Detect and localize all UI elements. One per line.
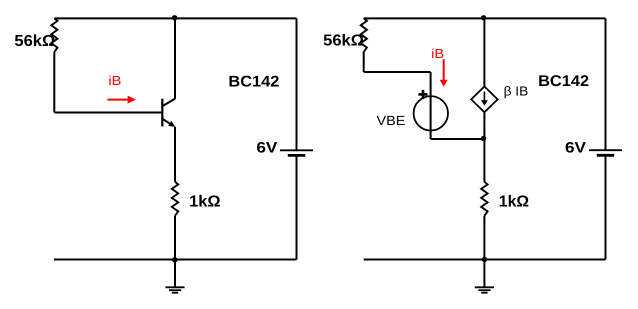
node: collector/top-rail junction dot: [172, 15, 177, 20]
wire: left vertical below R3: [363, 52, 365, 72]
svg-text:56kΩ: 56kΩ: [323, 33, 364, 50]
wire: current source to R4: [483, 112, 485, 182]
resistor R3 56k (zigzag): [361, 18, 367, 52]
resistor R2 1k (zigzag): [172, 182, 178, 216]
battery V1 6V: [280, 150, 313, 155]
wire: right rail lower (battery to bottom rail): [296, 155, 298, 259]
wire: top rail left circuit: [54, 17, 296, 19]
svg-text:BC142: BC142: [538, 73, 589, 90]
wire: base wire: [54, 112, 161, 114]
svg-text:VBE: VBE: [377, 113, 406, 128]
wire: horizontal to VBE source: [364, 71, 431, 73]
wire: right rail upper (to battery): [296, 18, 298, 150]
svg-text:1kΩ: 1kΩ: [499, 194, 529, 211]
arrow inside current source: [481, 92, 488, 106]
node: bottom rail junction dot (right circuit): [482, 257, 487, 262]
svg-text:1kΩ: 1kΩ: [189, 194, 221, 211]
svg-text:56kΩ: 56kΩ: [14, 33, 55, 50]
battery V2 6V: [589, 150, 622, 155]
wire: emitter down to R2: [174, 127, 176, 182]
svg-text:iB: iB: [108, 73, 121, 88]
transistor Q1 emitter diagonal with arrow: [162, 119, 171, 125]
ground GND1: [165, 260, 184, 293]
ground GND2: [475, 260, 494, 293]
transistor Q1 collector diagonal: [162, 99, 175, 106]
node: emitter/bottom-rail junction dot: [172, 257, 177, 262]
svg-text:β IB: β IB: [504, 84, 529, 99]
transistor Q1 base bar: [161, 99, 163, 127]
dependent current source I1 beta*IB (diamond): [471, 87, 497, 113]
wire: bottom rail right circuit: [364, 259, 606, 261]
svg-text:6V: 6V: [565, 139, 586, 156]
svg-text:iB: iB: [431, 46, 444, 61]
wire: top rail right circuit: [364, 17, 606, 19]
arrow: base current direction (red): [107, 96, 135, 104]
wire: bottom rail left circuit: [54, 259, 297, 261]
resistor R1 56k (zigzag): [51, 18, 57, 52]
wire: vertical through VBE source: [430, 72, 432, 139]
node: VBE/emitter junction dot: [481, 136, 486, 141]
wire: R4 to bottom rail: [483, 216, 485, 260]
svg-text:6V: 6V: [256, 139, 277, 156]
resistor R4 1k (zigzag): [481, 182, 487, 216]
node: top rail junction dot (right circuit): [481, 15, 486, 20]
wire: R2 to bottom rail: [174, 216, 176, 260]
wire: left vertical below R1: [53, 52, 55, 113]
polarity + sign of VBE: [418, 90, 427, 99]
wire: center branch from top rail to current source: [483, 18, 485, 86]
svg-text:BC142: BC142: [228, 73, 279, 90]
voltage source VBE (circle): [414, 96, 448, 130]
wire: right rail upper (to battery, right circuit): [605, 18, 607, 150]
wire: VBE bottom to center branch: [431, 138, 485, 140]
wire: right rail lower (battery to bottom rail, right circuit): [605, 155, 607, 259]
arrow: base current direction (red, down): [440, 59, 448, 87]
wire: collector to top rail: [174, 18, 176, 98]
